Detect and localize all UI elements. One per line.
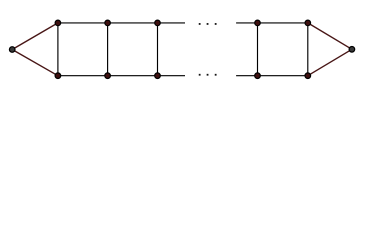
- wire: left apex to top-left diagonal: [12, 23, 58, 50]
- wire: bottom rail left segment: [58, 75, 185, 77]
- label: top ellipsis dot 2: [207, 23, 209, 25]
- label: bottom ellipsis dot 3: [215, 74, 217, 76]
- label: top ellipsis dot 3: [215, 23, 217, 25]
- node: bottom vertex 5: [305, 73, 311, 79]
- node: top vertex 1: [55, 20, 61, 26]
- wire: rung 5: [307, 23, 309, 76]
- node: top vertex 3: [155, 20, 161, 26]
- node: top vertex 4: [255, 20, 261, 26]
- label: bottom ellipsis dot 2: [207, 74, 209, 76]
- node: bottom vertex 3: [155, 73, 161, 79]
- wire: right apex to bottom-right diagonal: [308, 49, 352, 75]
- wire: rung 4: [257, 23, 259, 76]
- node: bottom vertex 1: [55, 73, 61, 79]
- node: bottom vertex 2: [105, 73, 111, 79]
- wire: rung 1: [57, 23, 59, 76]
- wire: bottom rail right segment: [236, 75, 308, 77]
- wire: rung 2: [107, 23, 109, 76]
- node: right apex vertex: [349, 47, 355, 53]
- wire: top rail left segment: [58, 22, 185, 24]
- wire: right apex to top-right diagonal: [308, 23, 352, 49]
- node: left apex vertex: [9, 47, 15, 53]
- label: bottom ellipsis dot 1: [199, 74, 201, 76]
- wire: left apex to bottom-left diagonal: [12, 50, 58, 76]
- wire: top rail right segment: [236, 22, 308, 24]
- node: top vertex 2: [105, 20, 111, 26]
- wire: rung 3: [157, 23, 159, 76]
- node: top vertex 5: [305, 20, 311, 26]
- node: bottom vertex 4: [255, 73, 261, 79]
- label: top ellipsis dot 1: [199, 23, 201, 25]
